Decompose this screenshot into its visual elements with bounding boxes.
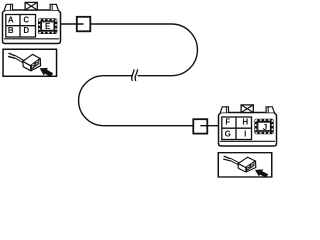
pin cavity E hatched box (38, 18, 57, 34)
wire upper run (90, 24, 197, 76)
svg-text:E: E (45, 22, 51, 31)
wire break symbol (132, 69, 135, 81)
svg-text:C: C (23, 15, 29, 24)
svg-text:G: G (225, 129, 231, 138)
svg-text:H: H (242, 118, 248, 127)
terminal T1 (77, 17, 91, 32)
wire middle and lower run (79, 76, 194, 126)
svg-text:F: F (225, 118, 230, 127)
svg-text:A: A (8, 15, 14, 24)
svg-text:B: B (8, 26, 14, 35)
wire from C1 to terminal T1 (61, 23, 84, 25)
icon box for connector C2 (218, 153, 272, 180)
connector C1 housing (3, 2, 61, 43)
terminal T2 (193, 119, 207, 133)
svg-text:J: J (263, 123, 267, 132)
pin cavity J hatched box (254, 119, 273, 135)
connector C2 housing (219, 105, 277, 146)
wire from T2 to connector C2 (200, 125, 218, 127)
svg-text:D: D (23, 26, 29, 35)
icon box for connector C1 (3, 49, 57, 79)
svg-text:I: I (244, 129, 246, 138)
